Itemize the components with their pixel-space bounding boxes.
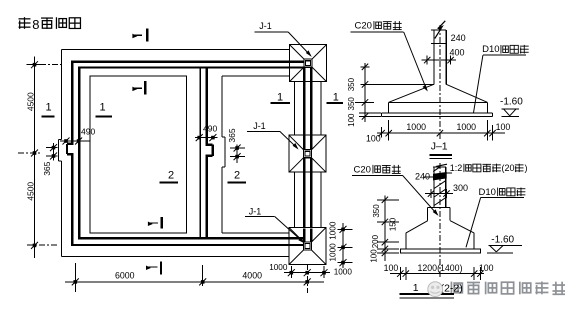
svg-text:4000: 4000 xyxy=(242,271,262,281)
svg-text:-1.60: -1.60 xyxy=(500,96,523,107)
svg-text:100: 100 xyxy=(369,249,378,263)
svg-text:100: 100 xyxy=(366,133,381,143)
watermark logo circle xyxy=(428,282,443,297)
svg-text:4500: 4500 xyxy=(26,182,36,201)
svg-text:350: 350 xyxy=(347,97,356,111)
label 1:2 waterproof mortar 20 xyxy=(438,163,528,177)
svg-text:2: 2 xyxy=(168,170,174,182)
svg-text:C20: C20 xyxy=(355,21,372,32)
svg-text:D10: D10 xyxy=(479,187,496,198)
right wall foundation edges xyxy=(295,82,321,229)
svg-text:1000: 1000 xyxy=(328,243,337,262)
2-2 section centerline xyxy=(439,163,441,278)
svg-text:1000: 1000 xyxy=(269,263,288,272)
J-1 dim line 400 xyxy=(422,56,457,65)
section mark 1 room1 bottom xyxy=(148,217,161,229)
J-1 cushion layer xyxy=(382,113,493,116)
svg-text:100: 100 xyxy=(384,263,399,273)
svg-text:(2-2): (2-2) xyxy=(441,283,463,295)
label J-1 middle with leader xyxy=(247,121,297,148)
J-1 left dimension 350/350/100 xyxy=(347,63,381,127)
2-2 section title 1-1 (2-2) xyxy=(400,282,463,298)
label 1 room1 xyxy=(96,102,113,117)
svg-text:350: 350 xyxy=(347,77,356,91)
2-2 coat solid band xyxy=(434,173,447,180)
right dimension 1000/1000 at footing xyxy=(328,221,352,268)
svg-text:): ) xyxy=(525,163,528,173)
watermark text gray xyxy=(451,282,565,295)
svg-text:4500: 4500 xyxy=(26,92,36,111)
svg-text:1000: 1000 xyxy=(334,268,353,277)
svg-text:100: 100 xyxy=(479,263,494,273)
left dimension line 4500/4500 xyxy=(26,57,41,259)
label 2 room1 xyxy=(160,170,178,183)
svg-text:D10: D10 xyxy=(482,44,499,55)
plan outer foundation edge xyxy=(59,50,290,257)
svg-text:365: 365 xyxy=(227,128,237,142)
svg-text:350: 350 xyxy=(372,204,381,218)
label 1 left outside xyxy=(42,102,55,117)
label D10 cushion layer 2 xyxy=(466,187,525,248)
axis dash-dot lines left xyxy=(18,65,62,245)
2-2 left dimension 350/150/200/100 xyxy=(369,196,399,263)
dim 490 left wall xyxy=(60,127,95,145)
J-1 footing block xyxy=(389,102,488,113)
2-2 level mark -1.60 xyxy=(487,235,522,254)
J-1 column break mark xyxy=(435,21,446,39)
dim 365 left wall xyxy=(42,143,57,176)
2-2 footing slopes and block xyxy=(406,221,474,249)
svg-text:J-1: J-1 xyxy=(249,206,262,216)
svg-text:1000: 1000 xyxy=(328,221,337,240)
svg-text:1: 1 xyxy=(333,92,339,104)
middle wall lines with jog xyxy=(200,66,212,239)
svg-text:1:2: 1:2 xyxy=(450,163,463,173)
J-1 dim text 240 xyxy=(451,33,466,43)
svg-text:490: 490 xyxy=(81,127,95,137)
2-2 wall hatch xyxy=(434,181,446,206)
J-1 column xyxy=(431,30,446,84)
svg-text:200: 200 xyxy=(371,234,380,248)
svg-text:490: 490 xyxy=(203,124,217,134)
svg-text:6000: 6000 xyxy=(115,271,135,281)
left wall thick lines with jog xyxy=(67,60,79,246)
svg-text:100: 100 xyxy=(496,122,511,132)
svg-text:100: 100 xyxy=(347,113,356,127)
svg-text:1: 1 xyxy=(99,102,105,114)
svg-text:300: 300 xyxy=(453,183,468,193)
dim 490 middle wall xyxy=(195,124,217,142)
svg-text:1000: 1000 xyxy=(457,122,477,132)
bottom main dimension 6000/4000 xyxy=(65,263,324,292)
svg-text:J–1: J–1 xyxy=(431,141,448,153)
section mark 1 bottom xyxy=(147,262,162,275)
label J-1 top with leader xyxy=(255,21,311,56)
svg-text:1: 1 xyxy=(45,102,51,114)
label J-1 bottom with leader xyxy=(245,206,304,242)
2-2 dim text 240 xyxy=(415,172,433,182)
svg-text:J-1: J-1 xyxy=(259,21,272,31)
2-2 dim 300 xyxy=(425,183,468,198)
column footing J-1 bottom xyxy=(289,228,326,265)
footing centerline witness bottom xyxy=(306,264,308,293)
dim 365 middle wall xyxy=(227,128,245,163)
svg-text:150: 150 xyxy=(388,217,397,231)
title text 第8题附图 xyxy=(19,17,81,32)
section mark 1 top xyxy=(133,29,147,42)
svg-text:1: 1 xyxy=(413,282,419,294)
label 1 right wall left xyxy=(271,92,290,104)
svg-text:C20: C20 xyxy=(354,164,371,175)
room 2 inner foundation edge with jog xyxy=(222,76,289,233)
2-2 pedestal xyxy=(428,207,451,220)
right wall thick lines xyxy=(304,67,311,242)
2-2 bottom dimension 100/1200(1400)/100 xyxy=(384,263,494,280)
top wall thick lines xyxy=(71,62,304,68)
svg-text:1200(1400): 1200(1400) xyxy=(418,263,463,273)
label 2 room2 xyxy=(228,170,246,183)
J-1 dim text 400 xyxy=(450,48,465,58)
2-2 wall break mark xyxy=(433,164,447,171)
svg-text:2: 2 xyxy=(234,170,240,182)
svg-text:1000: 1000 xyxy=(406,122,426,132)
column footing J-1 middle xyxy=(289,135,326,172)
svg-text:365: 365 xyxy=(42,161,52,175)
svg-text:(20: (20 xyxy=(502,163,515,173)
J-1 footing slopes xyxy=(365,84,487,102)
bottom wall thick lines xyxy=(71,238,304,245)
section mark 1 room1 top xyxy=(133,81,145,94)
svg-text:240: 240 xyxy=(451,33,466,43)
2-2 cushion layer xyxy=(400,249,480,253)
label C20 strip footing xyxy=(352,164,437,214)
label D10 cushion layer xyxy=(474,44,529,113)
J-1 section centerline xyxy=(439,25,441,139)
bottom dimension 1000/1000 at footing xyxy=(269,263,352,278)
svg-text:8: 8 xyxy=(32,17,39,32)
J-1 level mark -1.60 xyxy=(500,96,523,116)
svg-text:J-1: J-1 xyxy=(253,121,266,131)
J-1 section title xyxy=(430,141,452,159)
svg-text:-1.60: -1.60 xyxy=(491,235,514,246)
label 1 right wall right xyxy=(327,92,343,104)
J-1 bottom dimension 1000/1000/100 xyxy=(366,120,510,143)
2-2 wall with waterproof coat xyxy=(433,167,446,207)
column footing J-1 top xyxy=(290,45,327,82)
svg-text:1: 1 xyxy=(277,92,283,104)
label C20 concrete column footing xyxy=(351,21,427,90)
svg-text:400: 400 xyxy=(450,48,465,58)
room 1 inner foundation edge xyxy=(90,76,187,233)
wall stubs through footings xyxy=(289,62,311,245)
